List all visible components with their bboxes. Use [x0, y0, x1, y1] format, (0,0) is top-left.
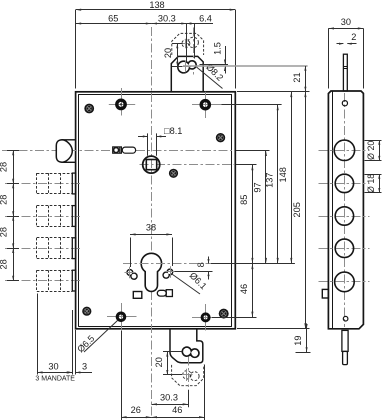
side view small bottom hole — [343, 316, 348, 321]
side view circle 1 center line — [319, 150, 370, 152]
side view circle 5 center line — [319, 281, 370, 283]
svg-text:20: 20 — [154, 357, 164, 367]
side view circle 5 — [335, 272, 355, 292]
svg-text:20: 20 — [163, 48, 173, 58]
top adjusting hole — [117, 100, 125, 108]
tab hole reference line — [183, 65, 308, 67]
svg-text:28: 28 — [0, 162, 8, 172]
euro cylinder profile — [141, 253, 161, 291]
dim 28 #2 — [0, 184, 14, 217]
handle follower circle — [143, 156, 160, 173]
dim 21 — [292, 66, 306, 92]
dim 20 top extensions — [172, 44, 183, 67]
dim 30 left — [37, 362, 72, 374]
top tab alternate hole cross — [181, 39, 190, 49]
dim 65 — [76, 13, 152, 24]
side view top strip — [343, 54, 347, 91]
svg-text:2: 2 — [351, 32, 356, 42]
dim 28 #4 — [0, 248, 14, 280]
bottom mounting tab outline — [170, 329, 203, 363]
bottom right hole — [202, 314, 209, 321]
side view circle 2 — [335, 174, 353, 192]
dim 20 bottom — [154, 352, 168, 375]
dim 3 — [68, 362, 92, 374]
dim 97 — [253, 150, 267, 263]
dim D18 — [366, 174, 380, 193]
slot hole right of cylinder — [157, 290, 172, 297]
follower horizontal center line — [140, 164, 235, 166]
top right hole cross lines — [192, 92, 222, 118]
dim 20 bottom extensions — [163, 352, 183, 375]
top right fixing screw — [216, 133, 225, 142]
svg-text:3: 3 — [82, 362, 87, 372]
cylinder center reference line — [211, 263, 295, 265]
bottom right hole cross lines — [192, 304, 219, 331]
latch spring pin — [114, 147, 120, 153]
svg-text:85: 85 — [239, 195, 249, 205]
dim 6.4 — [187, 13, 213, 24]
dim D18 extensions — [365, 175, 382, 193]
deadbolt row 1 center line — [5, 183, 80, 185]
top right hole reference line — [222, 104, 282, 106]
top right hole — [201, 101, 209, 109]
leader D8.2 — [197, 62, 226, 89]
square hole below cylinder — [133, 292, 142, 299]
top tab alternate small hole (dashed) — [182, 40, 190, 48]
side view circle 3 center line — [319, 216, 370, 218]
svg-text:65: 65 — [108, 13, 118, 23]
svg-text:30.3: 30.3 — [158, 13, 176, 23]
bottom tab alternate small hole (dashed) — [183, 371, 191, 379]
center fixing screw — [169, 169, 178, 178]
dim 26-46 left extension — [121, 331, 123, 420]
latch spring body — [122, 147, 135, 153]
side view circle 4 — [335, 239, 353, 257]
deadbolt 2 front block — [72, 206, 76, 227]
deadbolt 3 front block — [72, 238, 76, 259]
latch reference line — [236, 150, 270, 152]
dim D20 extensions — [365, 141, 382, 161]
svg-text:46: 46 — [172, 405, 182, 415]
dim 138 extension lines — [76, 10, 236, 89]
deadbolt 2 retracted (dashed) — [37, 206, 73, 227]
case bottom reference line — [237, 328, 310, 330]
bottom tab alternate large hole (dashed) — [190, 372, 199, 381]
handle follower square hole — [146, 160, 156, 170]
deadbolt 4 retracted (dashed) — [37, 270, 73, 291]
follower reference line — [236, 164, 257, 166]
dim 28 #1 — [0, 150, 14, 183]
side view top strip joint — [343, 67, 347, 69]
dim 30.3 bottom extensions — [189, 357, 205, 420]
dim square 8.1 extensions — [148, 133, 157, 155]
svg-text:28: 28 — [0, 259, 8, 269]
svg-text:38: 38 — [146, 223, 156, 233]
dim 8 extension — [175, 271, 213, 273]
side view circle 4 center line — [319, 248, 370, 250]
svg-text:26: 26 — [131, 405, 141, 415]
dim 85 — [239, 165, 254, 264]
top tab alternate large hole (dashed) — [188, 37, 198, 47]
latch bolt guide lines — [62, 140, 76, 163]
bottom left hole cross lines — [107, 303, 137, 331]
bottom left fixing screw — [82, 307, 91, 316]
case top reference line — [237, 91, 310, 93]
side view circle 3 — [335, 207, 353, 225]
dim D20 — [366, 140, 380, 160]
leader D6.1 — [171, 270, 209, 294]
dim square 8.1 — [138, 126, 182, 137]
deadbolt 3 retracted (dashed) — [37, 238, 73, 259]
bottom right fixing screw — [219, 309, 229, 319]
dim 137 — [264, 105, 278, 264]
svg-text:3 MANDATE: 3 MANDATE — [35, 376, 75, 383]
top hole cross lines — [109, 88, 135, 116]
deadbolt 1 retracted (dashed) — [37, 173, 73, 194]
dim 1.5 extension — [200, 64, 229, 66]
side view body outline — [328, 91, 363, 329]
svg-text:1.5: 1.5 — [212, 42, 222, 55]
dim 138 — [76, 0, 236, 11]
lock case outline (front view) — [76, 92, 236, 329]
top mounting tab outline — [171, 56, 203, 91]
side view faceplate inner line — [332, 91, 334, 328]
top tab axis center line — [193, 28, 195, 77]
cylinder left screw hole — [125, 267, 138, 279]
vertical axis center line — [151, 27, 153, 417]
svg-text:205: 205 — [292, 202, 302, 217]
dim 19 extension — [296, 352, 311, 354]
dim 20 top — [163, 44, 179, 67]
side view small top hole — [342, 101, 347, 106]
dim 28 chain line — [7, 150, 19, 280]
dim 38 extensions — [131, 238, 173, 268]
latch spring pin housing — [113, 147, 122, 153]
side view bottom strip — [342, 330, 348, 351]
bottom tab alternate position (dashed) — [172, 365, 204, 386]
side view circle 2 center line — [319, 183, 370, 185]
deadbolt row 3 center line — [5, 248, 80, 250]
side view bottom strip lower — [343, 351, 348, 364]
latch bolt head — [56, 140, 72, 163]
dim 30.3 top — [151, 13, 187, 24]
side view vertical center line — [344, 93, 346, 327]
top tab keyhole slot — [178, 61, 196, 73]
svg-text:Ø 20: Ø 20 — [366, 141, 376, 160]
label 3 MANDATE — [35, 376, 75, 383]
svg-text:□8.1: □8.1 — [164, 126, 182, 136]
bottom tab screw slot — [182, 347, 199, 357]
dim 30 left extensions — [38, 294, 76, 375]
top tab small hole cross — [181, 61, 192, 72]
dim 205 — [292, 92, 307, 329]
deadbolt 1 front block — [72, 173, 76, 194]
deadbolt row 4 center line — [5, 280, 80, 282]
dim 1.5 — [212, 42, 226, 73]
svg-text:6.4: 6.4 — [199, 13, 212, 23]
dim 46 right — [239, 264, 254, 318]
bottom hole reference line — [212, 317, 257, 319]
svg-text:Ø 18: Ø 18 — [366, 174, 376, 193]
svg-text:97: 97 — [253, 182, 263, 192]
bottom left hole (D6.5) — [117, 313, 125, 321]
dim 148 — [278, 92, 293, 264]
svg-text:8: 8 — [196, 262, 206, 267]
dim 8 — [196, 257, 209, 280]
dim 30 side extensions — [329, 28, 364, 88]
top tab alternate position (dashed) — [172, 33, 204, 55]
svg-text:138: 138 — [149, 0, 164, 10]
side view left stop bump — [322, 289, 328, 298]
bottom tab alternate hole cross — [181, 369, 193, 381]
dim 46 bottom — [151, 405, 204, 418]
svg-text:28: 28 — [0, 227, 8, 237]
svg-text:21: 21 — [292, 72, 302, 82]
dim 2 — [337, 32, 357, 45]
dim 30 side — [328, 17, 363, 29]
cylinder horizontal center line — [123, 263, 211, 265]
dim 30.3 top extension — [187, 24, 195, 62]
latch horizontal center line — [2, 150, 232, 152]
dim 19 — [293, 324, 307, 353]
svg-text:19: 19 — [293, 335, 303, 345]
svg-text:46: 46 — [239, 284, 249, 294]
cylinder right screw hole — [163, 266, 176, 278]
deadbolt 4 front block — [72, 270, 76, 291]
dim 28 #3 — [0, 216, 14, 248]
deadbolt row 2 center line — [5, 216, 80, 218]
svg-text:148: 148 — [278, 167, 288, 182]
dim 30.3 bottom — [151, 392, 188, 405]
svg-text:30.3: 30.3 — [160, 392, 178, 402]
top left fixing screw — [84, 104, 94, 114]
dim 38 — [130, 223, 172, 236]
leader D6.5 — [75, 321, 117, 355]
svg-text:30: 30 — [48, 362, 58, 372]
lock case inner edge — [78, 94, 232, 326]
svg-text:30: 30 — [341, 17, 351, 27]
dim 26 — [121, 405, 151, 418]
svg-text:28: 28 — [0, 195, 8, 205]
side view circle 1 — [334, 140, 354, 160]
